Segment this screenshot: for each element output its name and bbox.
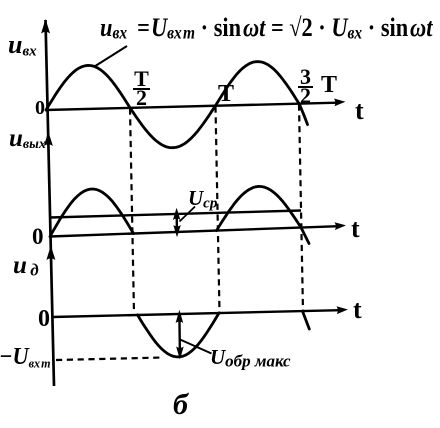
Ucp double arrow head down [173,225,181,237]
input sine tail after 3/2T [299,104,308,125]
Ucp measuring double arrow shaft [175,212,178,233]
origin 0 bottom [38,307,50,331]
label u_вых axis [9,126,46,152]
T/2 fraction [133,71,150,106]
T of 3/2T [321,73,337,97]
leader line from formula to curve [95,46,128,67]
origin 0 middle [32,225,44,248]
Ucp average level line [50,211,301,218]
label u_вх axis [8,32,37,59]
Uобр макс label [210,347,291,370]
Uобр макс measuring double arrow shaft [178,315,181,355]
label u_д axis [13,253,39,279]
Uобр arrow head up [176,310,184,323]
leader from Uобр макс label to arrow [180,340,212,354]
dashed vertical at 3/2 T [299,105,303,312]
dashed vertical at T/2 [130,109,134,314]
-Uвхm label [0,345,51,369]
leader from Ucp label to arrow [180,207,196,222]
y-axis arrowhead bottom plot [46,246,55,261]
middle plot t-axis arrowhead [335,222,347,230]
dashed vertical at T [216,107,220,313]
y-axis arrowhead middle plot [44,132,53,147]
y-axis arrowhead top plot [41,19,50,34]
diode reverse voltage trough [138,313,220,357]
dashed horizontal at -Uвхm level [56,358,163,361]
origin 0 top [35,98,45,118]
rectified hump 2 (T..3/2T) [217,186,302,230]
bottom plot t-axis arrowhead [337,306,349,314]
Ucp label [188,188,217,211]
top plot t-axis [46,103,338,110]
t label bottom [353,297,362,323]
Uобр arrow head down [176,347,184,360]
Ucp double arrow head up [173,208,181,220]
diode curve tail after 3/2T [303,313,309,330]
middle plot t-axis [50,226,339,236]
top plot t-axis arrowhead [334,99,346,107]
formula [100,15,432,42]
caption б [173,390,188,420]
y-axis common vertical line [46,20,55,386]
hump tail after 3/2T [301,228,309,244]
bottom plot t-axis [53,310,341,317]
3/2 T fraction [298,69,313,104]
T label on axis [218,82,234,106]
rectified hump 1 (0..T/2) [50,189,134,237]
t label middle [351,216,360,242]
input sine curve u_вх [46,62,299,148]
t label top [355,98,364,124]
